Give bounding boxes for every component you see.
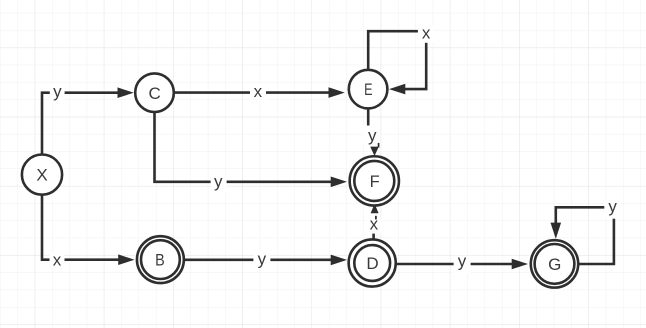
svg-text:y: y [368,126,377,145]
state D (accepting) [349,239,396,286]
state label C [149,84,161,103]
arrowhead B to D [331,255,347,266]
wire X to B [42,195,122,260]
state C [135,73,174,112]
wire D to G [396,263,515,266]
state B (accepting) [137,236,184,283]
svg-text:y: y [258,250,267,269]
svg-text:y: y [608,197,617,216]
label y on G self-loop [604,197,621,219]
svg-text:E: E [364,80,372,99]
label y on wire C to F [211,172,227,193]
wire C to F [155,112,335,182]
svg-text:x: x [254,82,263,101]
state label B [155,251,165,270]
wire G self-loop [556,207,614,264]
arrowhead E self-loop [389,84,405,95]
svg-text:x: x [370,215,379,234]
arrowhead X to B [118,254,134,265]
svg-text:F: F [370,172,380,191]
arrowhead D to G [512,259,528,270]
wire D to F stub [372,233,375,240]
state E [349,70,388,109]
svg-text:y: y [53,82,62,101]
label y on wire X to C [50,82,65,102]
wire C to E [174,91,332,94]
label x on E self-loop [418,23,435,42]
svg-text:y: y [214,172,223,191]
state label F [370,172,380,191]
state label D [366,254,378,273]
wire E to F upper segment [367,109,370,126]
arrowhead X to C [118,87,134,98]
state label G [548,255,561,274]
svg-text:X: X [36,166,47,185]
svg-text:x: x [422,23,431,42]
state X [22,155,62,195]
svg-text:G: G [548,255,561,274]
svg-text:x: x [53,250,62,269]
state G (accepting) [531,240,578,287]
arrowhead E to F [370,147,379,156]
label x on wire D to F [366,215,381,234]
arrowhead C to E [329,87,345,98]
state F (accepting) [350,156,399,205]
svg-text:C: C [149,84,161,103]
arrowhead D to F [371,204,379,214]
arrowhead G self-loop [551,223,562,239]
state label X [36,166,47,185]
wire B to D [185,258,334,261]
label y on wire B to D [253,250,270,269]
label x on wire X to B [50,250,65,269]
wire E self-loop [368,31,426,89]
state label E [364,80,372,99]
label y on wire D to G [454,252,471,274]
svg-text:B: B [155,251,165,270]
arrowhead C to F [331,177,347,188]
wire X to C [42,93,121,155]
label y on wire E to F [364,126,381,146]
label x on wire C to E [250,82,266,101]
svg-text:D: D [366,254,378,273]
svg-text:y: y [458,252,467,271]
